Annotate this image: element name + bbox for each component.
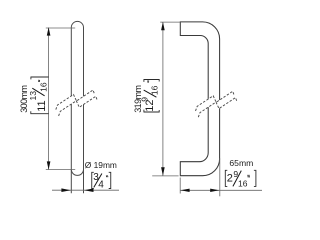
label [3/4"] fraction [92, 172, 111, 190]
319mm arrow down [161, 167, 165, 175]
300mm dimension line [48, 28, 50, 170]
bar right side line / Ø19 right extension line [83, 28, 85, 194]
65mm right extension line [219, 159, 221, 197]
svg-text:12: 12 [144, 100, 156, 112]
svg-text:13: 13 [28, 91, 38, 101]
svg-text:2: 2 [227, 172, 233, 184]
svg-text:16: 16 [238, 178, 248, 188]
Ø19 right outside arrow [84, 188, 93, 192]
svg-text:4: 4 [98, 179, 104, 190]
svg-text:65mm: 65mm [229, 158, 253, 168]
svg-text:Ø 19mm: Ø 19mm [85, 160, 117, 170]
65mm right arrow [210, 189, 219, 192]
319mm top extension line [160, 21, 180, 23]
break gap white band (left view) [58, 90, 96, 111]
label [12 9/16"] rotated fraction [140, 80, 160, 113]
top bracket bar [144, 80, 160, 82]
65mm left extension line [179, 178, 181, 194]
300mm arrow up [47, 27, 51, 35]
handle outline [180, 22, 219, 176]
top bracket bar with leader to dimension line [31, 77, 49, 79]
svg-text:16: 16 [39, 82, 49, 92]
fraction slash [144, 90, 157, 97]
300mm arrow down [47, 161, 51, 169]
break zigzag lower (right view) [198, 98, 237, 118]
319mm bottom extension line [152, 175, 178, 177]
inch mark (rotated) [38, 80, 40, 81]
65mm left arrow [181, 189, 190, 192]
bar top rounded end [71, 21, 83, 27]
300mm bottom extension line [46, 169, 75, 171]
inch mark (rotated) [147, 81, 149, 82]
break zigzag upper (right view) [196, 91, 235, 111]
break gap white band (right view) [197, 91, 235, 112]
319mm arrow up [161, 22, 165, 30]
label [11 13/16"] rotated fraction [28, 77, 49, 114]
65mm dimension line [180, 189, 262, 191]
break zigzag lower (left view) [59, 96, 98, 116]
300mm top extension line [46, 27, 75, 29]
Ø19 left outside arrow [61, 188, 70, 192]
Ø19 dimension line [52, 189, 119, 191]
svg-text:11: 11 [36, 100, 48, 111]
break zigzag upper (left view) [56, 90, 95, 110]
bottom bracket bar [144, 110, 160, 112]
bar left side line / Ø19 left extension line [70, 28, 72, 194]
fraction slash [32, 88, 44, 96]
label [2 9/16"] fraction [225, 169, 256, 189]
bottom bracket bar with leader to dimension line [30, 111, 48, 113]
319mm dimension line [162, 22, 164, 175]
bar bottom rounded end [71, 169, 83, 175]
